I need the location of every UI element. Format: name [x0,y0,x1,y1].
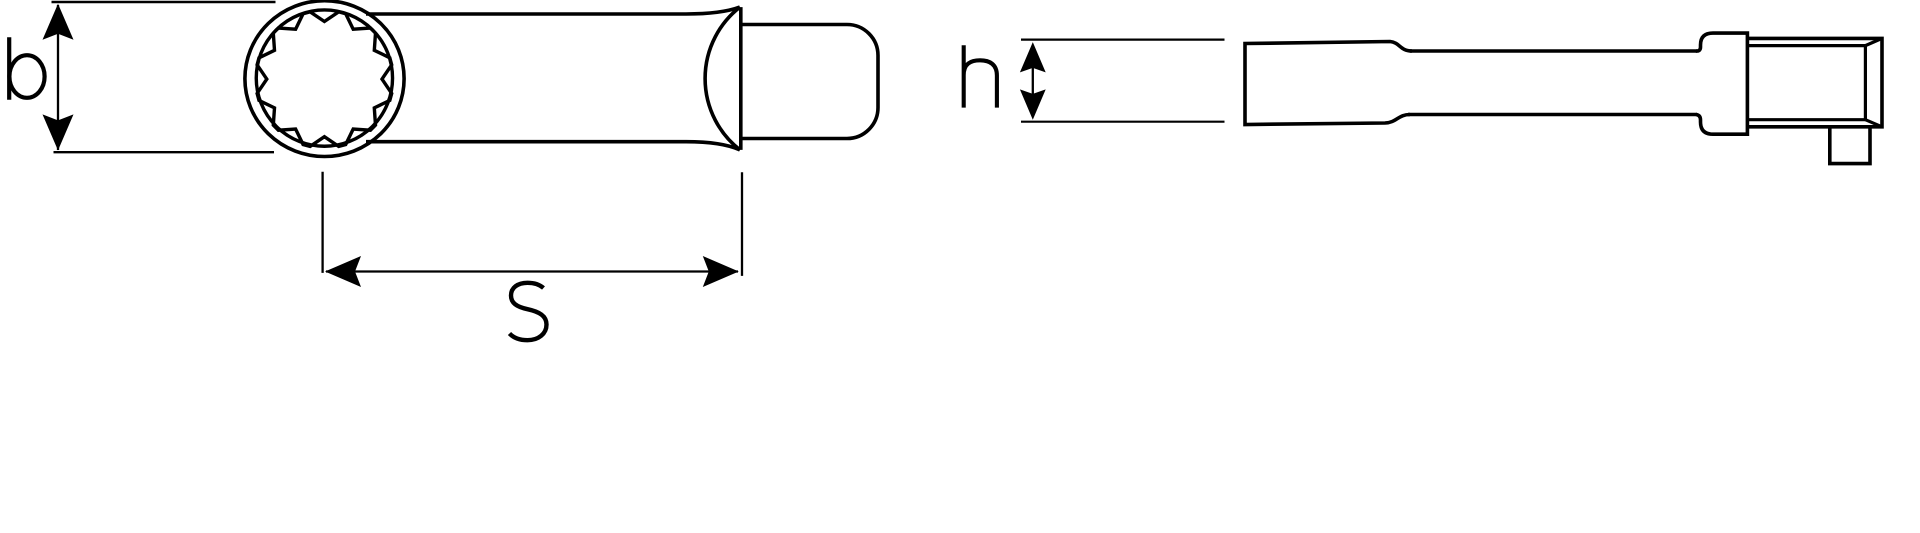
side view shaft top edge [1410,49,1697,53]
dimension S left arrowhead [325,256,361,287]
dimension S left extension line [321,172,323,273]
dimension h bottom extension line [1021,121,1225,123]
handle tube bottom edge with flare [366,142,740,150]
collar outline [1696,33,1747,134]
dimension h arrow shaft [1032,60,1034,102]
square drive tab [1830,127,1870,164]
dimension S right arrowhead [703,256,739,287]
dimension h top extension line [1021,38,1225,40]
dimension h label [964,45,997,107]
dimension b top extension line [52,1,276,3]
square head top bevel diagonal [1865,38,1882,45]
square head inner top line [1747,44,1865,47]
tube end dome arc [705,7,740,150]
dimension b bottom extension line [54,151,275,153]
tube end vertical edge [739,7,743,150]
dimension b bottom arrowhead [43,114,74,150]
dimension S arrow line [326,270,738,272]
square head outer outline [1747,38,1882,126]
square head inner bottom line [1747,118,1865,121]
dimension b top arrowhead [43,4,74,40]
dimension S label [510,283,547,340]
12-point socket profile star [257,12,392,147]
handle tube top edge with flare [366,7,740,14]
dimension h up arrowhead [1020,42,1046,72]
ring head inner circle [256,10,392,146]
drive stub rounded rectangle [740,25,878,139]
ring head outer circle [245,1,404,157]
dimension b label [9,37,44,99]
square head bottom bevel diagonal [1865,120,1882,127]
square head inner right line [1864,46,1867,120]
dimension S right extension line [741,172,743,276]
dimension b arrow line [57,5,59,150]
dimension h down arrowhead [1020,89,1046,119]
side view tang and shaft outline [1245,42,1412,125]
side view shaft bottom edge [1408,113,1697,117]
